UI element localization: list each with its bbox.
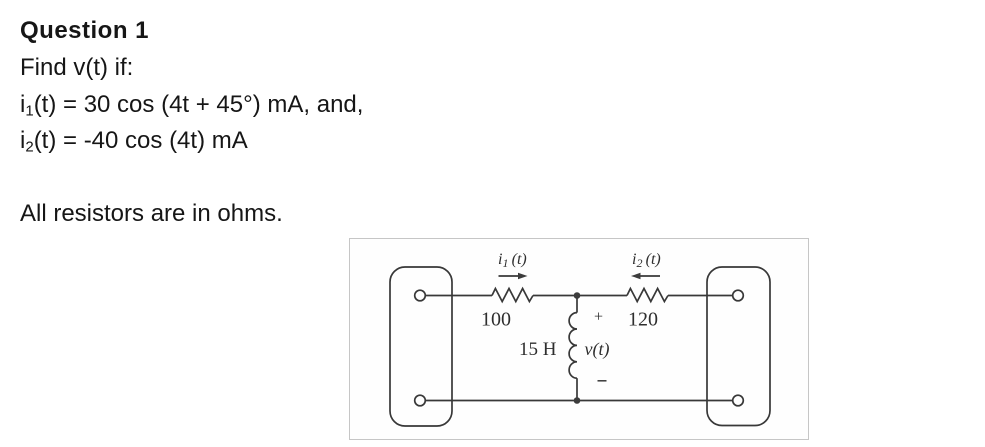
svg-text:120: 120 [628, 309, 658, 331]
svg-text:i1 (t): i1 (t) [498, 251, 527, 270]
inductor bottom lead [576, 378, 578, 400]
inductor L1 coil [569, 313, 577, 379]
label minus [598, 380, 607, 382]
node bottom [574, 397, 581, 404]
svg-text:i2 (t): i2 (t) [632, 251, 661, 270]
resistor R1 100 zigzag [492, 289, 533, 302]
terminal bottom-left [415, 395, 426, 406]
svg-text:+: + [594, 309, 603, 326]
current source box left [390, 267, 452, 426]
arrowhead i2 [631, 273, 641, 279]
terminal top-right [733, 290, 744, 301]
inductor top lead [576, 296, 578, 313]
node top [574, 292, 581, 299]
wire R2 to right terminal [668, 295, 733, 297]
wire top-left lead [425, 295, 492, 297]
arrow i2 [638, 275, 660, 277]
resistor R2 120 zigzag [627, 289, 668, 302]
arrowhead i1 [518, 273, 528, 279]
wire R1 to node [533, 295, 577, 297]
svg-text:15 H: 15 H [519, 339, 557, 360]
arrow i1 [499, 275, 521, 277]
terminal top-left [415, 290, 426, 301]
svg-text:100: 100 [481, 309, 511, 331]
wire node to R2 [577, 295, 627, 297]
wire bottom [425, 400, 732, 402]
circuit figure [349, 238, 809, 440]
current source box right [707, 267, 770, 426]
terminal bottom-right [733, 395, 744, 406]
svg-text:v(t): v(t) [585, 339, 610, 360]
